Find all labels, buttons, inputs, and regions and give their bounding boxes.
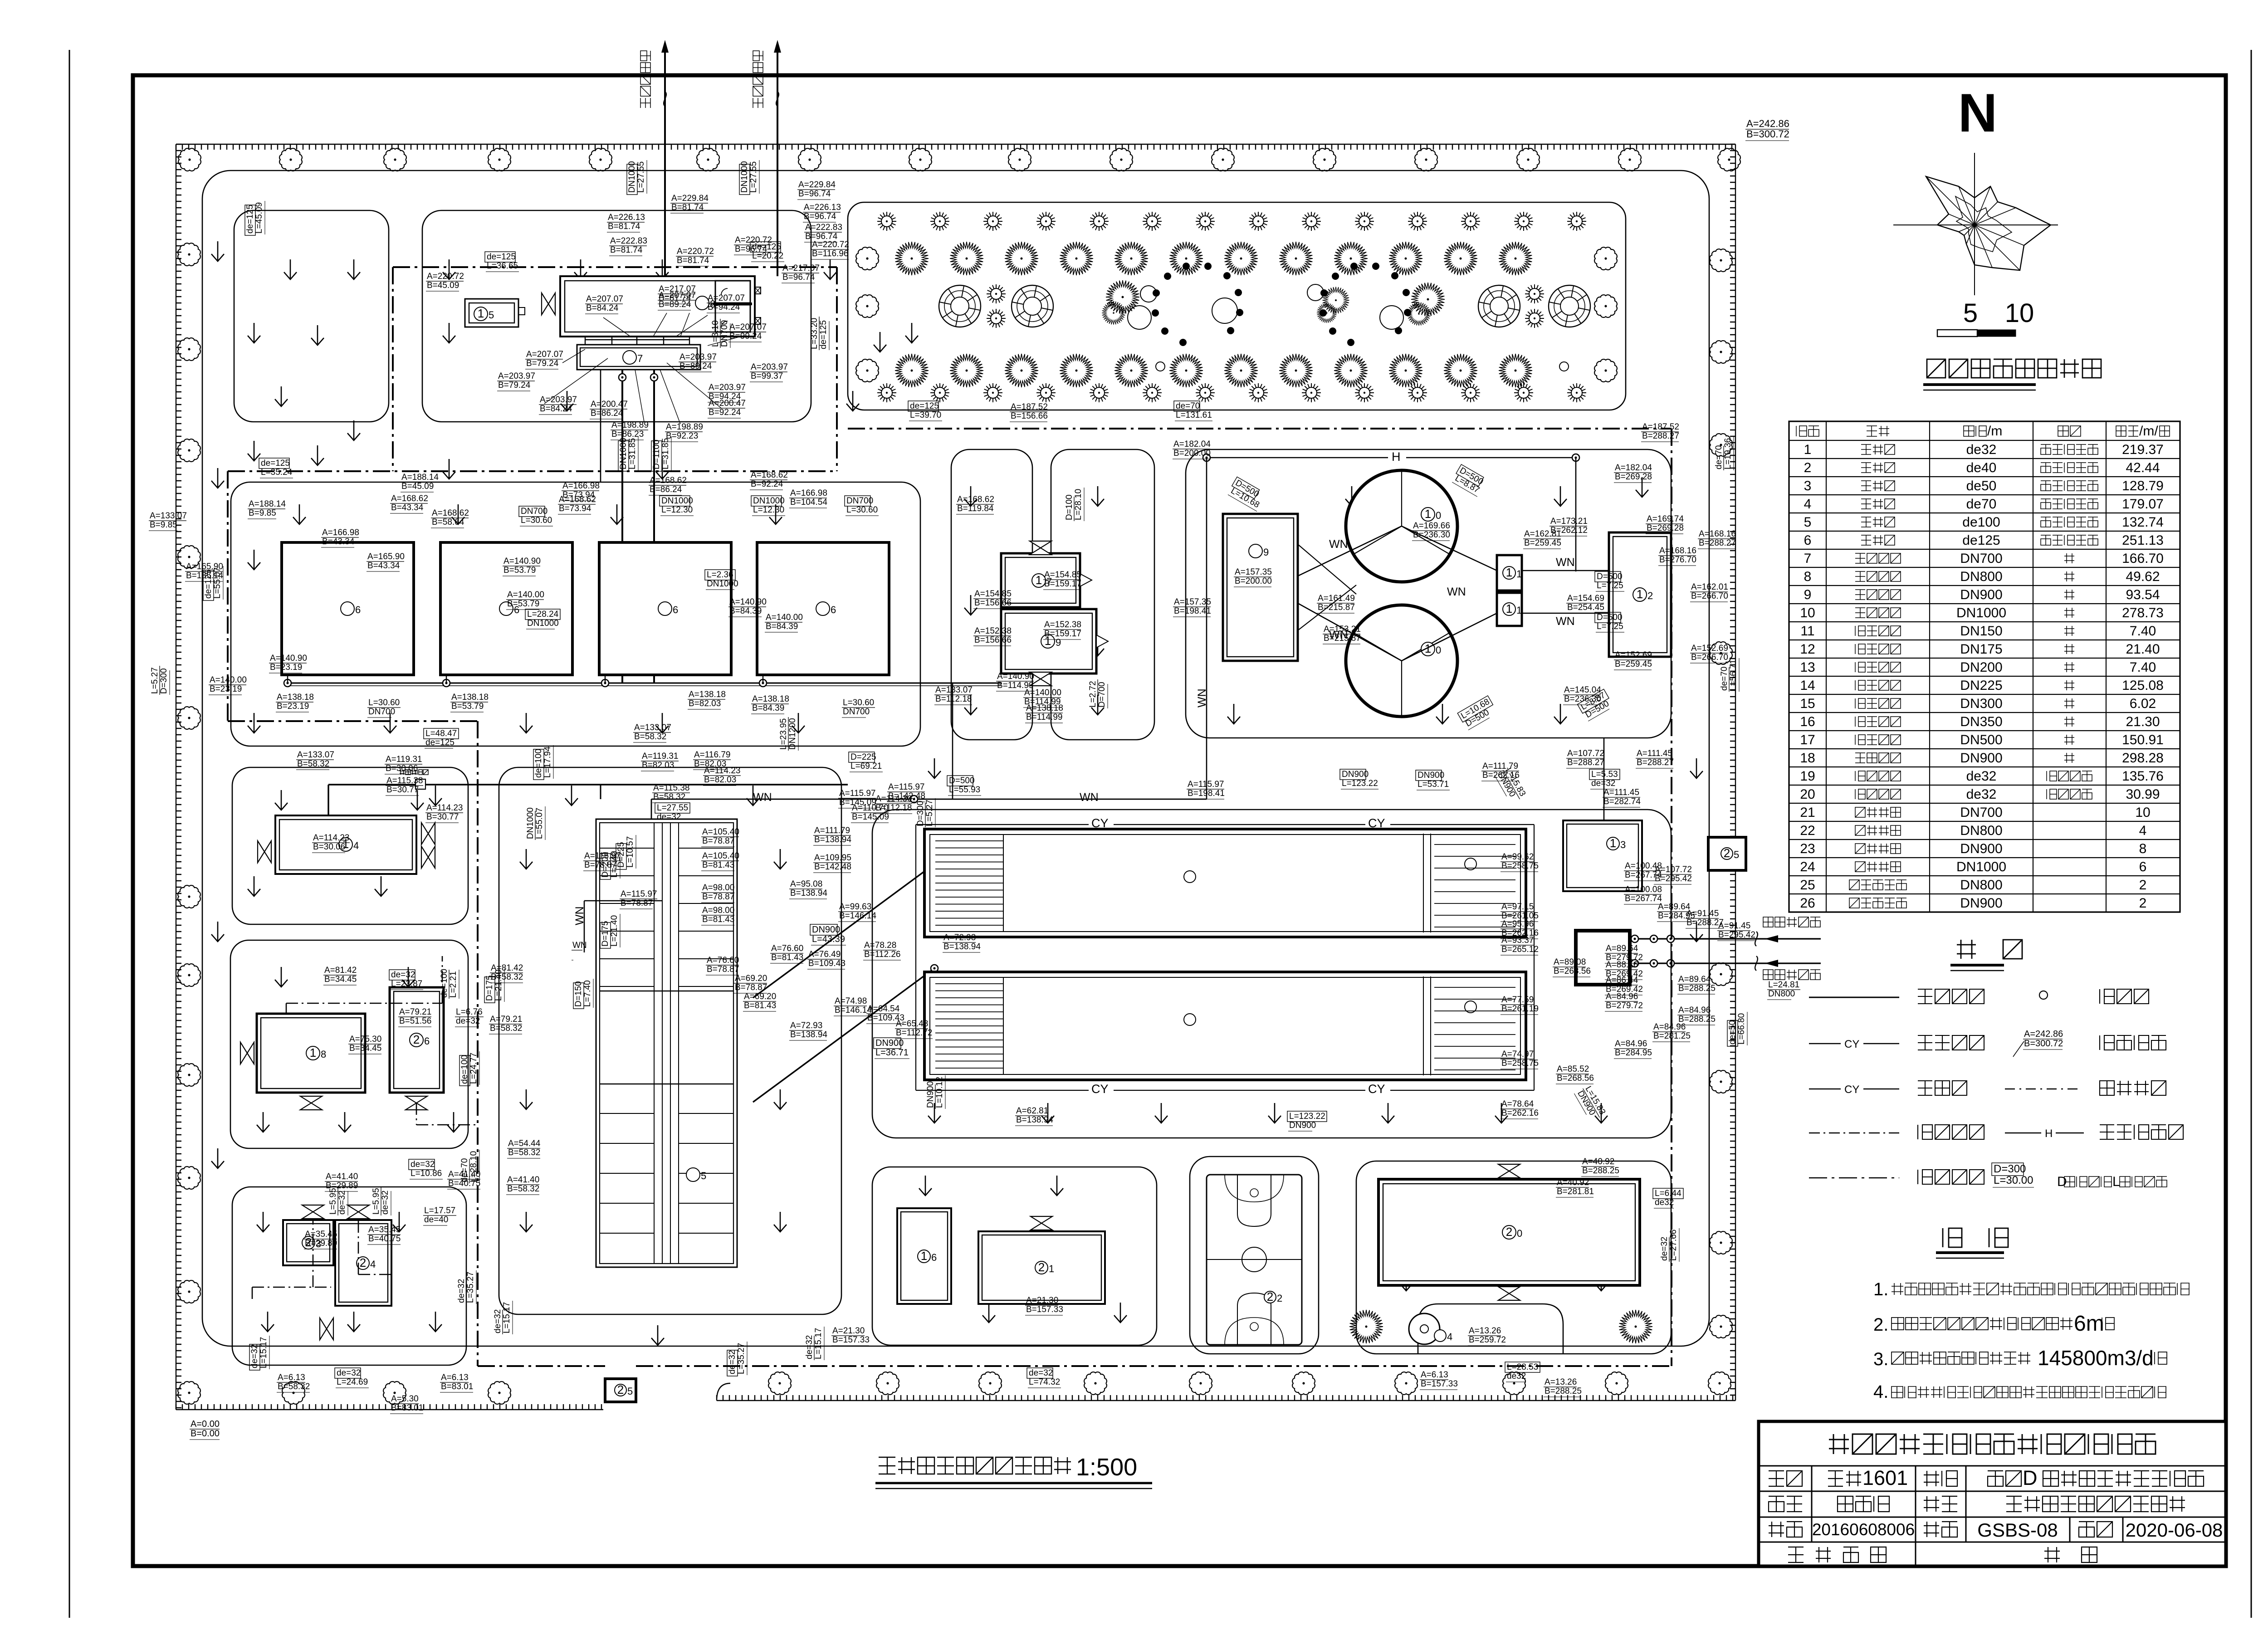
svg-text:A=200.47: A=200.47 bbox=[591, 400, 628, 409]
svg-text:B=295.42: B=295.42 bbox=[1655, 874, 1692, 883]
svg-text:A=79.21: A=79.21 bbox=[490, 1015, 522, 1024]
svg-text:6: 6 bbox=[2139, 859, 2147, 874]
svg-text:A=133.07: A=133.07 bbox=[150, 511, 187, 521]
svg-text:B=266.70: B=266.70 bbox=[1691, 591, 1728, 601]
svg-text:B=116.96: B=116.96 bbox=[812, 249, 848, 259]
svg-text:B=45.09: B=45.09 bbox=[401, 482, 434, 491]
svg-text:de=100: de=100 bbox=[440, 969, 449, 998]
block road: basketball block bbox=[1190, 1157, 1319, 1354]
svg-text:L=36.71: L=36.71 bbox=[875, 1048, 909, 1058]
svg-text:B=279.72: B=279.72 bbox=[1606, 1001, 1643, 1010]
svg-text:A=89.64: A=89.64 bbox=[1678, 975, 1711, 984]
svg-text:L=28.10: L=28.10 bbox=[469, 1151, 479, 1182]
svg-text:DN1000: DN1000 bbox=[619, 438, 628, 469]
svg-text:D: D bbox=[2057, 1174, 2067, 1189]
svg-text:L=7.40: L=7.40 bbox=[610, 851, 619, 878]
svg-text:L=27.55: L=27.55 bbox=[636, 161, 646, 193]
svg-text:B=58.32: B=58.32 bbox=[297, 759, 329, 769]
block road: filter building block bbox=[499, 767, 841, 1314]
svg-text:N: N bbox=[1958, 83, 1998, 143]
tree row along bottom fence bbox=[282, 1372, 1731, 1404]
svg-text:A=152.38: A=152.38 bbox=[974, 626, 1012, 636]
svg-text:A=86.44: A=86.44 bbox=[1606, 976, 1638, 985]
svg-text:WN: WN bbox=[573, 906, 586, 925]
svg-text:DN900: DN900 bbox=[875, 1038, 904, 1048]
svg-text:de32: de32 bbox=[1507, 1372, 1526, 1381]
svg-text:A=111.45: A=111.45 bbox=[1603, 788, 1639, 797]
svg-text:A=168.62: A=168.62 bbox=[559, 495, 596, 504]
svg-text:B=156.66: B=156.66 bbox=[974, 635, 1012, 645]
svg-text:A=152.69: A=152.69 bbox=[1691, 644, 1728, 653]
svg-text:6: 6 bbox=[831, 604, 836, 615]
svg-text:8: 8 bbox=[1804, 569, 1812, 584]
svg-text:de=125: de=125 bbox=[752, 242, 781, 252]
svg-text:de=32: de=32 bbox=[657, 812, 681, 822]
svg-text:A=41.40: A=41.40 bbox=[326, 1172, 358, 1181]
municipal pipe east bbox=[777, 43, 778, 276]
svg-text:L=7.40: L=7.40 bbox=[583, 980, 592, 1007]
svg-text:A=84.96: A=84.96 bbox=[1615, 1039, 1647, 1049]
svg-text:A=75.30: A=75.30 bbox=[349, 1035, 381, 1044]
svg-text:B=0.00: B=0.00 bbox=[191, 1429, 220, 1439]
svg-text:de=32: de=32 bbox=[1660, 1237, 1669, 1261]
svg-text:DN700: DN700 bbox=[720, 320, 729, 347]
svg-text:A=207.07: A=207.07 bbox=[586, 294, 623, 304]
svg-text:L=17.57: L=17.57 bbox=[424, 1206, 455, 1215]
svg-text:A=140.00: A=140.00 bbox=[1024, 688, 1061, 698]
svg-text:1: 1 bbox=[1516, 605, 1522, 616]
svg-text:B=34.45: B=34.45 bbox=[324, 975, 357, 984]
svg-text:D=1100: D=1100 bbox=[652, 439, 661, 469]
pipe and fittings table title bbox=[1927, 359, 2101, 378]
svg-text:A=78.28: A=78.28 bbox=[864, 941, 896, 950]
svg-text:A=78.64: A=78.64 bbox=[1501, 1099, 1534, 1109]
svg-text:de32: de32 bbox=[1966, 787, 1997, 802]
svg-text:A=64.54: A=64.54 bbox=[867, 1004, 900, 1014]
svg-text:A=115.97: A=115.97 bbox=[888, 782, 924, 792]
svg-text:B=200.00: B=200.00 bbox=[1235, 576, 1272, 586]
svg-text:L=27.55: L=27.55 bbox=[657, 803, 688, 813]
svg-text:4: 4 bbox=[1447, 1331, 1452, 1342]
svg-text:B=146.14: B=146.14 bbox=[839, 911, 876, 921]
svg-text:A=169.66: A=169.66 bbox=[1413, 521, 1450, 531]
svg-text:B=142.48: B=142.48 bbox=[888, 791, 925, 801]
svg-text:B=58.64: B=58.64 bbox=[432, 517, 464, 527]
svg-text:A=84.96: A=84.96 bbox=[1678, 1005, 1711, 1015]
main ring road outer edge bbox=[202, 171, 1709, 1346]
svg-text:DN1000: DN1000 bbox=[1956, 859, 2006, 874]
svg-text:A=91.45: A=91.45 bbox=[1686, 909, 1719, 918]
row: student id bbox=[1769, 1522, 1802, 1537]
svg-text:A=152.38: A=152.38 bbox=[1044, 620, 1081, 630]
svg-text:B=29.89: B=29.89 bbox=[305, 1239, 337, 1248]
plan title bbox=[879, 1457, 1071, 1474]
svg-text:A=40.92: A=40.92 bbox=[1557, 1178, 1589, 1187]
tree column along right fence bbox=[1710, 249, 1732, 1338]
svg-text:B=159.17: B=159.17 bbox=[1044, 629, 1081, 639]
svg-text:D=500: D=500 bbox=[1597, 572, 1623, 581]
svg-text:de=32: de=32 bbox=[457, 1279, 466, 1303]
svg-text:de100: de100 bbox=[1962, 515, 2000, 530]
sedimentation basin 6-4 bbox=[757, 542, 889, 675]
svg-text:B=78.87: B=78.87 bbox=[707, 965, 739, 974]
svg-text:B=259.45: B=259.45 bbox=[1524, 538, 1561, 548]
svg-text:L=3.10: L=3.10 bbox=[711, 320, 720, 347]
svg-text:DN700: DN700 bbox=[521, 507, 547, 516]
svg-text:H: H bbox=[2045, 1127, 2053, 1140]
svg-text:L=30.60: L=30.60 bbox=[846, 505, 878, 515]
svg-text:A=188.14: A=188.14 bbox=[249, 499, 286, 509]
svg-text:L=20.22: L=20.22 bbox=[752, 251, 783, 261]
svg-text:de=125: de=125 bbox=[245, 205, 255, 234]
svg-text:A=114.23: A=114.23 bbox=[704, 766, 740, 776]
svg-text:A=72.93: A=72.93 bbox=[943, 933, 976, 942]
svg-text:A=220.72: A=220.72 bbox=[427, 272, 464, 281]
svg-text:A=99.62: A=99.62 bbox=[1501, 852, 1534, 862]
svg-text:A=166.98: A=166.98 bbox=[790, 488, 827, 498]
svg-text:DN1000: DN1000 bbox=[661, 496, 693, 506]
well 4 bbox=[1409, 1313, 1440, 1344]
svg-text:A=133.07: A=133.07 bbox=[297, 750, 334, 760]
svg-text:A=79.21: A=79.21 bbox=[399, 1007, 431, 1017]
dosing line from building14 bbox=[328, 785, 848, 815]
svg-text:A=74.98: A=74.98 bbox=[835, 996, 867, 1006]
svg-text:24: 24 bbox=[1800, 859, 1815, 874]
svg-text:7.40: 7.40 bbox=[2130, 660, 2156, 675]
svg-text:A=0.00: A=0.00 bbox=[191, 1419, 220, 1429]
svg-text:B=73.94: B=73.94 bbox=[559, 504, 591, 513]
svg-text:1: 1 bbox=[478, 307, 484, 320]
tree row along top fence bbox=[178, 148, 1740, 171]
svg-text:L=48.47: L=48.47 bbox=[425, 729, 457, 738]
svg-text:B=159.17: B=159.17 bbox=[1044, 579, 1081, 589]
notes title bbox=[1943, 1228, 2008, 1247]
svg-text:23: 23 bbox=[1800, 841, 1815, 856]
svg-text:B=83.01: B=83.01 bbox=[391, 1403, 423, 1413]
svg-text:298.28: 298.28 bbox=[2122, 751, 2164, 766]
svg-text:L=131.61: L=131.61 bbox=[1176, 410, 1212, 420]
svg-text:DN800: DN800 bbox=[1960, 569, 2002, 584]
svg-text:A=140.90: A=140.90 bbox=[270, 654, 307, 663]
svg-text:5: 5 bbox=[1963, 298, 1978, 328]
svg-text:A=69.20: A=69.20 bbox=[735, 974, 767, 983]
svg-text:B=112.18: B=112.18 bbox=[935, 694, 972, 704]
svg-text:1:500: 1:500 bbox=[1076, 1454, 1137, 1481]
svg-text:L=2.72: L=2.72 bbox=[1088, 681, 1098, 708]
svg-text:L=10.12: L=10.12 bbox=[935, 1077, 944, 1108]
svg-text:A=153.21: A=153.21 bbox=[1324, 625, 1361, 634]
svg-text:6: 6 bbox=[1804, 533, 1812, 548]
svg-text:B=81.74: B=81.74 bbox=[608, 222, 640, 231]
svg-text:A=97.15: A=97.15 bbox=[1501, 902, 1534, 912]
svg-text:21.40: 21.40 bbox=[2126, 642, 2160, 657]
svg-text:L=55.93: L=55.93 bbox=[949, 785, 980, 795]
building 12 bbox=[1609, 532, 1671, 657]
svg-text:A=116.79: A=116.79 bbox=[694, 750, 730, 760]
svg-text:de=32: de=32 bbox=[337, 1191, 347, 1215]
svg-text:A=140.00: A=140.00 bbox=[766, 613, 803, 622]
svg-text:6: 6 bbox=[424, 1035, 430, 1047]
svg-text:DN700: DN700 bbox=[368, 707, 395, 717]
pipe and fittings table bbox=[1789, 421, 2180, 912]
DN1200 outlet from tank down bbox=[600, 785, 601, 799]
svg-text:WN: WN bbox=[1196, 688, 1208, 708]
row: advisor bbox=[1788, 1547, 1886, 1562]
svg-text:B=236.30: B=236.30 bbox=[1413, 530, 1450, 540]
svg-text:B=58.32: B=58.32 bbox=[507, 1184, 539, 1194]
svg-text:A=188.14: A=188.14 bbox=[401, 473, 439, 482]
svg-text:1: 1 bbox=[1610, 836, 1616, 850]
svg-text:B=268.56: B=268.56 bbox=[1557, 1074, 1594, 1083]
svg-text:WN: WN bbox=[753, 791, 772, 804]
svg-text:4.: 4. bbox=[1873, 1382, 1888, 1402]
svg-text:12: 12 bbox=[1800, 642, 1815, 657]
svg-text:DN350: DN350 bbox=[1960, 714, 2002, 729]
svg-text:DN1000: DN1000 bbox=[707, 579, 738, 589]
svg-text:B=268.56: B=268.56 bbox=[1554, 966, 1591, 976]
title block header bbox=[1829, 1434, 2156, 1454]
svg-text:A=84.96: A=84.96 bbox=[1606, 992, 1638, 1001]
svg-text:A=140.00: A=140.00 bbox=[507, 590, 544, 600]
svg-text:B=34.45: B=34.45 bbox=[349, 1044, 381, 1053]
svg-text:D=200: D=200 bbox=[601, 852, 610, 878]
svg-text:de=70: de=70 bbox=[460, 1158, 469, 1182]
svg-text:CY: CY bbox=[1091, 816, 1109, 830]
svg-text:L=15.17: L=15.17 bbox=[259, 1337, 269, 1368]
svg-text:A=168.62: A=168.62 bbox=[650, 476, 687, 485]
block road: buildings 18/26 block bbox=[230, 940, 468, 1148]
svg-text:B=215.87: B=215.87 bbox=[1318, 603, 1355, 612]
svg-text:A=165.90: A=165.90 bbox=[367, 552, 405, 561]
svg-text:B=112.26: B=112.26 bbox=[864, 950, 900, 959]
svg-text:B=9.85: B=9.85 bbox=[150, 520, 177, 530]
svg-text:B=84.39: B=84.39 bbox=[766, 622, 798, 631]
svg-text:A=119.31: A=119.31 bbox=[642, 752, 678, 761]
svg-text:B=58.32: B=58.32 bbox=[490, 1024, 522, 1033]
clear water tank 7 bbox=[577, 345, 700, 370]
svg-text:de=40: de=40 bbox=[424, 1215, 448, 1225]
svg-text:/m: /m bbox=[1987, 424, 2002, 439]
svg-text:B=82.03: B=82.03 bbox=[642, 761, 674, 770]
svg-text:B=96.74: B=96.74 bbox=[782, 273, 815, 282]
svg-text:93.54: 93.54 bbox=[2126, 587, 2160, 602]
svg-text:2: 2 bbox=[1277, 1293, 1282, 1304]
svg-text:B=104.54: B=104.54 bbox=[790, 498, 827, 507]
svg-text:DN150: DN150 bbox=[1960, 624, 2002, 639]
svg-text:de=100: de=100 bbox=[534, 749, 543, 778]
svg-text:B=79.24: B=79.24 bbox=[526, 359, 559, 368]
svg-text:WN: WN bbox=[1556, 556, 1575, 569]
svg-text:B=84.24: B=84.24 bbox=[586, 303, 619, 313]
svg-text:de=32: de=32 bbox=[456, 1016, 480, 1026]
svg-text:L=10.57: L=10.57 bbox=[626, 836, 635, 868]
svg-text:B=198.41: B=198.41 bbox=[1174, 606, 1211, 616]
svg-text:B=269.28: B=269.28 bbox=[1615, 472, 1652, 482]
svg-text:B=145.09: B=145.09 bbox=[839, 798, 876, 807]
svg-text:B=254.45: B=254.45 bbox=[1567, 603, 1604, 612]
svg-text:L=74.32: L=74.32 bbox=[1029, 1377, 1060, 1387]
svg-text:2: 2 bbox=[1506, 1225, 1512, 1239]
building 5 V-type filter house bbox=[596, 819, 737, 1267]
svg-text:DN1000: DN1000 bbox=[753, 496, 785, 506]
svg-text:B=215.87: B=215.87 bbox=[1324, 634, 1361, 643]
svg-text:L=5.53: L=5.53 bbox=[1591, 770, 1618, 779]
svg-text:A=203.97: A=203.97 bbox=[679, 352, 717, 362]
svg-text:11: 11 bbox=[1800, 624, 1814, 639]
svg-text:7: 7 bbox=[1804, 551, 1812, 566]
svg-text:DN900: DN900 bbox=[1289, 1121, 1316, 1130]
svg-text:A=229.84: A=229.84 bbox=[798, 180, 836, 190]
svg-text:DN500: DN500 bbox=[1960, 732, 2002, 747]
svg-text:A=162.01: A=162.01 bbox=[1691, 582, 1728, 592]
svg-text:A=161.49: A=161.49 bbox=[1318, 594, 1355, 603]
inner road spur around well bbox=[1418, 1304, 1563, 1354]
pump house annex partition bbox=[715, 281, 750, 303]
svg-text:de32: de32 bbox=[1655, 1198, 1674, 1207]
svg-text:L=30.00: L=30.00 bbox=[1994, 1174, 2033, 1186]
svg-text:L=15.17: L=15.17 bbox=[502, 1302, 512, 1333]
svg-text:L=28.53: L=28.53 bbox=[1507, 1362, 1538, 1372]
svg-text:A=187.52: A=187.52 bbox=[1642, 422, 1679, 432]
chlorine dosing line bbox=[286, 956, 442, 1014]
svg-text:B=30.06: B=30.06 bbox=[313, 842, 345, 852]
svg-text:B=51.56: B=51.56 bbox=[399, 1016, 431, 1026]
svg-text:de=125: de=125 bbox=[819, 320, 828, 349]
block road: clarifier block bbox=[1186, 449, 1671, 738]
svg-text:L=21.40: L=21.40 bbox=[494, 970, 503, 1001]
svg-text:6: 6 bbox=[673, 604, 678, 615]
svg-text:A=166.98: A=166.98 bbox=[322, 528, 359, 537]
svg-text:B=156.66: B=156.66 bbox=[1011, 411, 1048, 421]
building 8 pump house main bbox=[560, 276, 755, 337]
svg-text:B=58.32: B=58.32 bbox=[653, 792, 685, 802]
svg-text:WN: WN bbox=[1447, 586, 1466, 598]
svg-text:A=105.40: A=105.40 bbox=[702, 851, 739, 861]
D500 stub from basins header down bbox=[952, 683, 953, 739]
svg-text:B=43.34: B=43.34 bbox=[391, 503, 424, 512]
tree column along left fence bbox=[178, 243, 200, 1404]
svg-text:L=17.94: L=17.94 bbox=[543, 746, 552, 778]
block road: sedimentation filters block bbox=[872, 810, 1671, 1138]
svg-text:5: 5 bbox=[1734, 849, 1739, 860]
svg-text:B=261.19: B=261.19 bbox=[1501, 1004, 1539, 1014]
self-use water pipe loop (dash-dot) bbox=[393, 266, 837, 268]
svg-text:A=99.63: A=99.63 bbox=[839, 902, 871, 912]
svg-text:B=96.74: B=96.74 bbox=[798, 189, 831, 199]
svg-text:A=242.86: A=242.86 bbox=[2024, 1029, 2063, 1039]
svg-text:A=65.48: A=65.48 bbox=[896, 1019, 928, 1029]
svg-text:A=76.60: A=76.60 bbox=[707, 956, 739, 965]
svg-text:A=115.97: A=115.97 bbox=[1188, 780, 1224, 789]
svg-text:B=157.33: B=157.33 bbox=[832, 1335, 870, 1345]
building 25 south-west bbox=[605, 1379, 636, 1402]
svg-text:B=43.34: B=43.34 bbox=[367, 561, 400, 571]
svg-text:L=28.10: L=28.10 bbox=[1074, 489, 1083, 520]
legend title bbox=[1957, 940, 2022, 959]
building 23 bbox=[283, 1220, 333, 1265]
svg-text:A=114.23: A=114.23 bbox=[426, 803, 463, 813]
svg-text:L=69.21: L=69.21 bbox=[850, 761, 882, 771]
svg-text:B=288.27: B=288.27 bbox=[1642, 431, 1679, 441]
svg-text:7.40: 7.40 bbox=[2130, 624, 2156, 639]
svg-text:B=89.24: B=89.24 bbox=[679, 361, 712, 371]
svg-text:de=32: de=32 bbox=[1029, 1368, 1053, 1378]
outer sheet edge line left bbox=[69, 50, 70, 1618]
svg-text:DN225: DN225 bbox=[1960, 678, 2002, 693]
svg-text:B=288.25: B=288.25 bbox=[1545, 1386, 1582, 1396]
svg-text:5: 5 bbox=[701, 1170, 706, 1181]
building 13 metering chamber bbox=[1563, 820, 1642, 891]
sludge connectors WN diagonals bbox=[1298, 526, 1497, 661]
svg-text:A=89.64: A=89.64 bbox=[1658, 902, 1691, 912]
svg-text:B=288.27: B=288.27 bbox=[1637, 758, 1674, 767]
svg-text:0: 0 bbox=[1436, 644, 1441, 656]
building 14 bbox=[275, 815, 416, 874]
svg-text:de40: de40 bbox=[1966, 460, 1997, 475]
svg-text:A=168.16: A=168.16 bbox=[1699, 529, 1736, 539]
svg-text:CY: CY bbox=[1368, 816, 1385, 830]
svg-text:B=81.43: B=81.43 bbox=[702, 860, 734, 870]
svg-text:B=58.32: B=58.32 bbox=[634, 732, 666, 742]
svg-text:DN700: DN700 bbox=[1960, 551, 2002, 566]
svg-text:L=28.24: L=28.24 bbox=[527, 610, 559, 619]
svg-text:B=258.75: B=258.75 bbox=[1501, 1059, 1539, 1068]
svg-text:B=114.99: B=114.99 bbox=[1026, 713, 1062, 722]
svg-text:A=6.13: A=6.13 bbox=[441, 1373, 469, 1382]
svg-text:L=19.36: L=19.36 bbox=[1723, 438, 1733, 469]
block road: middle split block west bbox=[951, 449, 1032, 740]
svg-text:L=56.71: L=56.71 bbox=[1729, 659, 1738, 691]
svg-text:A=111.45: A=111.45 bbox=[1637, 749, 1672, 758]
legend bypass line bbox=[1809, 1088, 1841, 1090]
svg-text:D=700: D=700 bbox=[1097, 682, 1107, 708]
svg-text:A=91.45: A=91.45 bbox=[1718, 921, 1750, 931]
building 17 bbox=[1001, 553, 1080, 607]
svg-text:16: 16 bbox=[1800, 714, 1815, 729]
svg-text:A=35.45: A=35.45 bbox=[305, 1230, 337, 1239]
svg-text:DN900: DN900 bbox=[926, 1081, 935, 1108]
svg-text:D=175: D=175 bbox=[601, 921, 610, 947]
svg-text:B=53.79: B=53.79 bbox=[503, 566, 536, 575]
svg-text:de=32: de=32 bbox=[493, 1309, 503, 1333]
svg-text:B=81.43: B=81.43 bbox=[771, 953, 803, 962]
svg-text:B=288.27: B=288.27 bbox=[1567, 758, 1604, 767]
basketball court bbox=[1207, 1175, 1302, 1345]
svg-text:B=146.14: B=146.14 bbox=[835, 1005, 872, 1015]
legend self-use water bbox=[2005, 1088, 2081, 1090]
svg-text:A=138.18: A=138.18 bbox=[1026, 703, 1063, 713]
svg-text:B=300.72: B=300.72 bbox=[2024, 1039, 2063, 1049]
svg-text:B=84.39: B=84.39 bbox=[729, 606, 762, 616]
svg-text:19: 19 bbox=[1800, 769, 1815, 784]
svg-text:WN: WN bbox=[1556, 615, 1575, 628]
svg-text:L=6.44: L=6.44 bbox=[1655, 1189, 1681, 1198]
svg-text:L=27.55: L=27.55 bbox=[749, 161, 758, 193]
svg-text:B=288.25: B=288.25 bbox=[1678, 984, 1716, 993]
svg-text:L=30.60: L=30.60 bbox=[843, 698, 874, 708]
svg-text:GSBS-08: GSBS-08 bbox=[1977, 1519, 2058, 1541]
svg-text:5: 5 bbox=[1804, 515, 1812, 530]
svg-text:B=281.81: B=281.81 bbox=[1557, 1187, 1594, 1196]
svg-text:1: 1 bbox=[1516, 568, 1522, 580]
svg-text:A=6.13: A=6.13 bbox=[1421, 1370, 1448, 1380]
svg-text:A=226.13: A=226.13 bbox=[608, 213, 645, 222]
svg-text:1: 1 bbox=[1506, 566, 1512, 579]
svg-text:DN1000: DN1000 bbox=[740, 161, 749, 193]
svg-text:B=288.27: B=288.27 bbox=[1699, 538, 1736, 548]
svg-text:B=23.19: B=23.19 bbox=[277, 702, 309, 711]
svg-text:B=81.43: B=81.43 bbox=[744, 1001, 776, 1010]
